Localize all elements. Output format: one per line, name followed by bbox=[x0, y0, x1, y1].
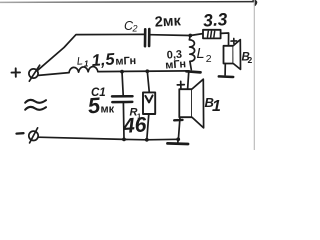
svg-text:мк: мк bbox=[101, 104, 115, 116]
svg-text:2мк: 2мк bbox=[154, 13, 182, 30]
svg-text:46: 46 bbox=[121, 113, 147, 138]
svg-text:2: 2 bbox=[132, 24, 138, 34]
svg-text:L: L bbox=[76, 55, 83, 67]
svg-text:2: 2 bbox=[248, 55, 253, 65]
svg-text:3.3: 3.3 bbox=[202, 9, 228, 31]
svg-text:1,5: 1,5 bbox=[91, 50, 116, 70]
svg-text:мГн: мГн bbox=[115, 55, 136, 68]
svg-text:1: 1 bbox=[84, 60, 89, 69]
svg-text:L: L bbox=[197, 46, 205, 62]
svg-text:2: 2 bbox=[206, 53, 212, 65]
svg-text:1: 1 bbox=[212, 98, 221, 115]
svg-text:мГн: мГн bbox=[165, 58, 187, 71]
